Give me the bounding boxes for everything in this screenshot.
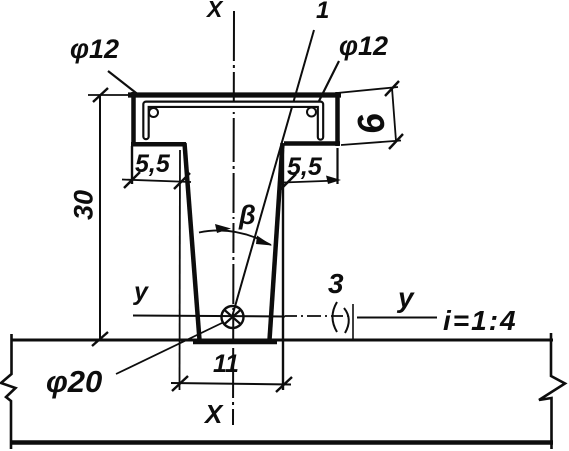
svg-text:11: 11	[213, 350, 239, 378]
angle beta arrow right	[256, 236, 272, 246]
stem right edge	[270, 143, 283, 340]
slab top edge	[11, 339, 553, 342]
dimension 11 line	[171, 383, 291, 385]
svg-text:y: y	[396, 282, 415, 313]
rebar bar with hooks (double line)	[146, 104, 321, 137]
stem bottom edge	[193, 339, 277, 345]
centroid bar symbol (circle with cross)	[222, 306, 244, 328]
svg-text:i=1:4: i=1:4	[443, 305, 518, 336]
dimension 30 line	[99, 95, 101, 339]
svg-text:φ12: φ12	[339, 31, 388, 61]
dimension 6 tick top	[385, 81, 399, 96]
dimension 5,5 right extension line	[336, 148, 338, 184]
dimension 11 extension line left	[179, 150, 182, 390]
dimension 5,5 right tick	[280, 174, 296, 190]
dimension 30 tick top	[93, 88, 108, 102]
axis y right segment	[357, 317, 437, 319]
dimension 6 line	[392, 88, 396, 141]
dimension 11 extension line right	[282, 150, 284, 390]
dimension 11 tick left	[172, 376, 188, 391]
slab left edge with break symbol	[1, 334, 16, 449]
dimension 6 extension bottom	[341, 141, 401, 146]
slab right edge with break symbol	[539, 333, 565, 449]
angle beta arrow left	[215, 224, 231, 233]
dimension 5,5 right arrow	[326, 176, 341, 185]
axis y dash-dot segment	[285, 315, 348, 317]
dimension 3 extension line	[352, 304, 354, 341]
svg-text:1: 1	[316, 0, 329, 24]
line 1 (inclined axis through centroid)	[232, 30, 314, 317]
flange right underside	[284, 141, 340, 146]
dimension 5,5 left line	[122, 180, 191, 183]
slab bottom edge	[11, 440, 553, 445]
axis y left segment	[133, 316, 285, 317]
svg-text:X: X	[205, 0, 224, 22]
dimension 3 bracket right	[344, 308, 349, 333]
svg-text:y: y	[132, 278, 149, 306]
transverse bar circle left	[149, 108, 158, 117]
svg-text:30: 30	[68, 190, 98, 220]
dimension 5,5 left extension line	[131, 146, 133, 184]
svg-text:5,5: 5,5	[287, 153, 323, 181]
angle beta arc with arrows	[199, 230, 271, 245]
dimension 30 extension line top	[88, 94, 131, 96]
dimension 5,5 left tick 1	[124, 172, 140, 188]
transverse bar circle right	[307, 108, 316, 117]
flange right edge	[335, 92, 340, 146]
flange top edge	[128, 92, 341, 97]
leader phi20	[116, 322, 224, 374]
dimension 11 tick right	[276, 377, 292, 392]
svg-text:X: X	[203, 399, 224, 429]
flange left underside	[131, 142, 186, 147]
dimension 3 bracket left	[333, 302, 338, 332]
dimension 6 extension top	[337, 87, 398, 93]
dimension 6 tick bottom	[389, 134, 403, 149]
dimension 5,5 left tick 2	[174, 173, 190, 189]
leader phi12 left	[108, 71, 140, 96]
flange left edge	[131, 92, 136, 146]
svg-text:3: 3	[328, 268, 344, 299]
leader phi12 right	[318, 61, 339, 103]
svg-text:φ12: φ12	[70, 34, 119, 64]
axis X centerline (vertical dash-dot)	[233, 11, 234, 425]
dimension 30 tick bottom	[92, 332, 108, 346]
svg-text:5,5: 5,5	[135, 150, 171, 178]
dimension 5,5 right line	[283, 181, 338, 183]
svg-text:φ20: φ20	[46, 364, 102, 399]
svg-text:β: β	[238, 200, 256, 230]
stem left edge	[185, 143, 200, 340]
